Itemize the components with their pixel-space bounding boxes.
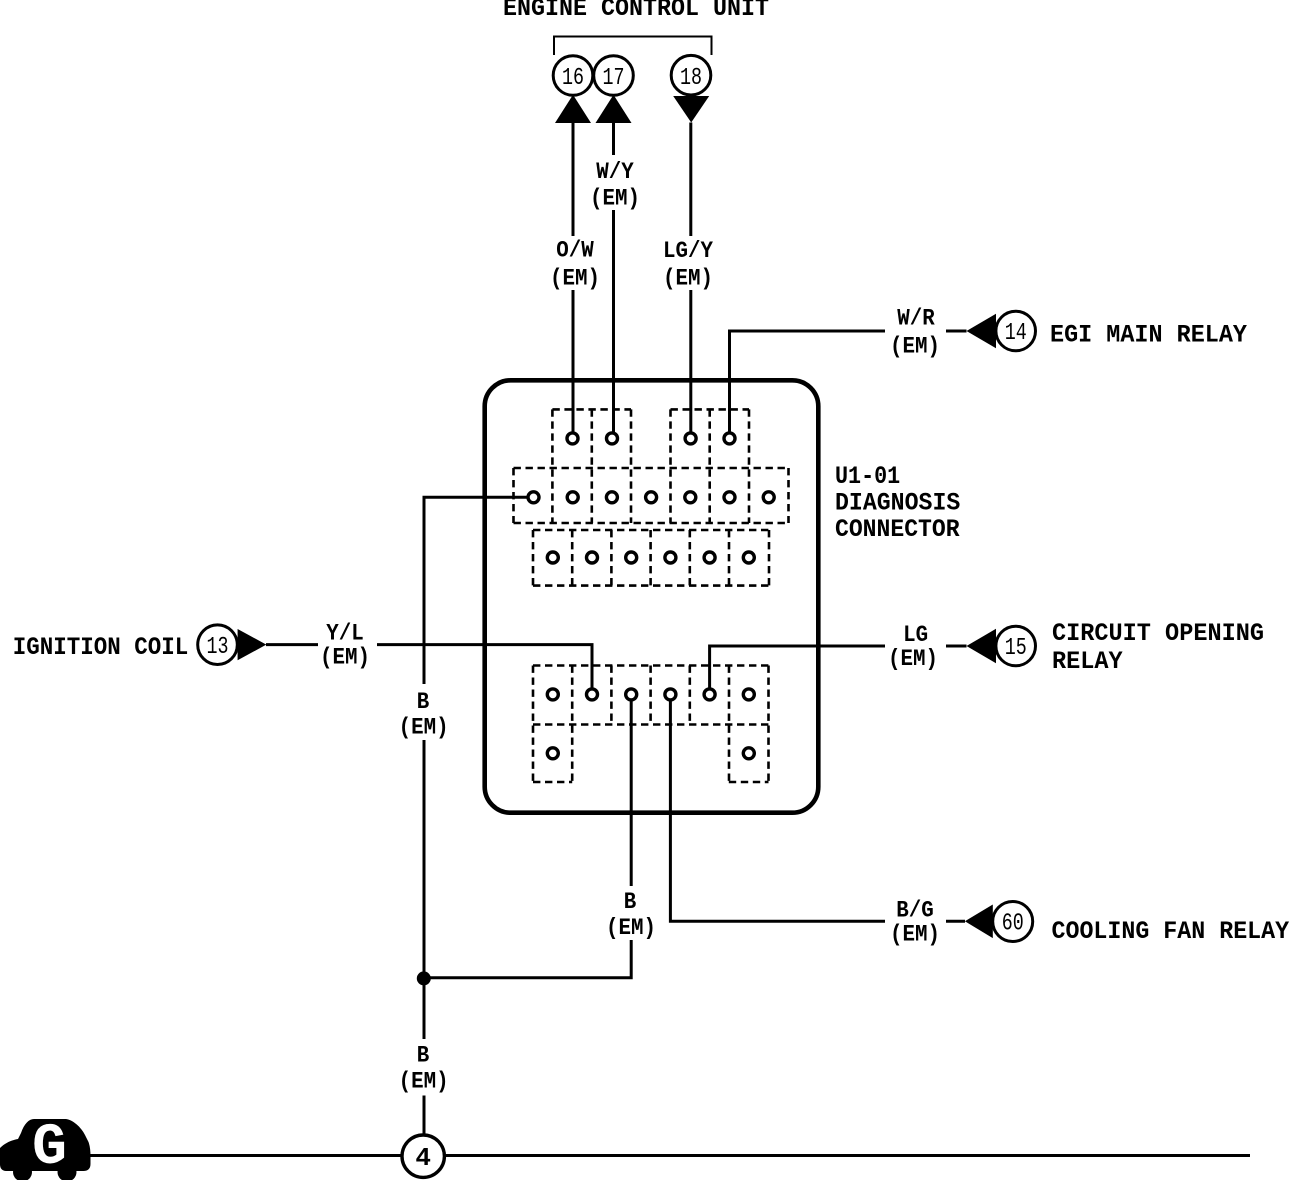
connector pin 16 [553,56,593,96]
svg-text:(EM): (EM) [550,266,600,292]
label U1-01 DIAGNOSIS CONNECTOR [835,462,960,544]
wire label Y/L (EM) [320,621,370,671]
arrow into connector 15 [967,629,997,663]
wire B from middle-row pin to ground bus [424,497,528,684]
dashed cavity outlines, lower half [533,666,769,783]
svg-text:O/W: O/W [556,238,594,264]
svg-text:LG: LG [903,622,928,648]
svg-text:(EM): (EM) [399,1069,449,1095]
arrow down from pin 18 [673,96,709,123]
connector pin 17 [594,56,634,96]
wire label LG/Y (EM) [663,238,713,292]
diagnosis connector pins, top row [567,433,735,444]
svg-text:60: 60 [1002,911,1024,938]
diagnosis connector pins, third row [547,552,754,563]
wire LG/Y from diagnosis connector to ECU pin 18 [689,123,692,433]
wire Y/L from ignition coil to diagnosis connector [266,645,592,688]
svg-text:(EM): (EM) [399,715,449,741]
diagnosis connector body U1-01 [485,380,819,812]
connector pin 13 [198,625,238,665]
wire label W/Y (EM) [590,159,640,212]
diagnosis connector pins, middle row [528,492,774,503]
arrow up to pin 17 [596,95,632,123]
arrow out of connector 13 [238,629,267,660]
svg-text:(EM): (EM) [888,646,938,672]
svg-text:IGNITION COIL: IGNITION COIL [13,633,188,662]
svg-text:15: 15 [1005,635,1027,662]
connector pin 14 [996,311,1036,351]
wire label B (EM) [399,689,449,741]
ground bus wire [88,1154,1250,1157]
svg-text:B/G: B/G [896,897,934,923]
svg-text:DIAGNOSIS: DIAGNOSIS [835,489,960,518]
svg-text:18: 18 [680,65,702,92]
wire label B (EM) above ground connector [399,1043,449,1095]
svg-text:(EM): (EM) [890,921,940,947]
wire label B (EM) [606,889,656,941]
svg-text:CONNECTOR: CONNECTOR [835,515,960,544]
svg-text:13: 13 [207,634,229,661]
svg-text:W/Y: W/Y [596,159,634,185]
ground G body symbol [0,1116,91,1180]
svg-text:(EM): (EM) [320,645,370,671]
dashed cavity outlines, upper half [514,409,789,585]
svg-text:ENGINE CONTROL UNIT: ENGINE CONTROL UNIT [503,0,769,23]
arrow up to pin 16 [555,95,591,123]
svg-text:(EM): (EM) [890,334,940,360]
wire label B/G (EM) [890,897,940,947]
ECU bracket [554,37,712,56]
wire W/R to EGI main relay [730,331,967,432]
connector pin 60 [993,902,1033,942]
wire label O/W (EM) [550,238,600,292]
svg-text:4: 4 [415,1143,431,1173]
diagnosis connector pins, lower block bottom row [547,748,754,759]
svg-text:RELAY: RELAY [1052,647,1123,676]
svg-text:B: B [417,689,430,715]
wire B/G to cooling fan relay [670,701,965,921]
wire W/Y from diagnosis connector to ECU pin 17 [612,123,615,432]
svg-text:(EM): (EM) [663,266,713,292]
svg-text:G: G [32,1116,67,1180]
junction [417,971,431,985]
svg-text:EGI MAIN RELAY: EGI MAIN RELAY [1050,321,1247,350]
wire B to ground connector 4 [423,1096,426,1136]
wire label LG (EM) [888,622,938,672]
svg-text:W/R: W/R [897,306,935,332]
diagnosis connector pins, lower block top row [547,689,754,700]
arrow into connector 60 [965,905,993,939]
label CIRCUIT OPENING RELAY [1052,619,1264,676]
arrow into connector 14 [967,314,997,348]
svg-text:U1-01: U1-01 [835,462,900,491]
svg-text:Y/L: Y/L [326,621,364,647]
svg-text:COOLING FAN RELAY: COOLING FAN RELAY [1052,917,1290,946]
svg-text:16: 16 [562,65,584,92]
svg-text:CIRCUIT OPENING: CIRCUIT OPENING [1052,619,1264,648]
wire B continues down [423,740,426,1039]
wire B from lower block pin to junction [424,701,631,978]
wire label W/R (EM) [890,306,940,360]
svg-text:B: B [624,889,637,915]
svg-text:LG/Y: LG/Y [663,238,713,264]
svg-text:B: B [417,1043,430,1069]
wire O/W from diagnosis connector to ECU pin 16 [572,123,575,432]
svg-text:14: 14 [1005,320,1027,347]
svg-text:(EM): (EM) [606,915,656,941]
connector pin 4 [402,1135,444,1177]
svg-text:17: 17 [603,65,625,92]
connector pin 15 [996,626,1036,666]
connector pin 18 [671,55,711,95]
svg-text:(EM): (EM) [590,186,640,212]
wire LG to circuit opening relay [710,646,967,688]
